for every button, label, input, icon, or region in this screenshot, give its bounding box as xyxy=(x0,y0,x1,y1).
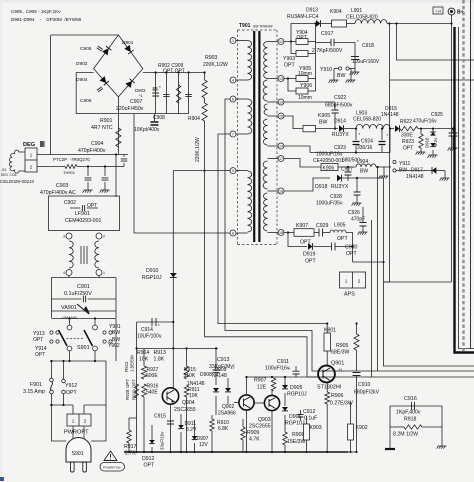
svg-text:R929: R929 xyxy=(132,389,137,400)
transistor Q904 xyxy=(162,388,178,404)
svg-text:*: * xyxy=(158,323,160,328)
svg-text:*: * xyxy=(159,85,161,90)
switch gang link xyxy=(67,338,85,340)
wire Y906 right xyxy=(308,90,316,92)
svg-text:R901: R901 xyxy=(100,118,113,124)
svg-text:N4148: N4148 xyxy=(212,373,227,379)
degauss coil xyxy=(9,150,25,173)
wire pin12 down xyxy=(290,42,292,54)
wire frame line e xyxy=(371,220,373,377)
wire capacitor C903a stem xyxy=(87,167,89,177)
wire L904 out xyxy=(376,166,391,168)
capacitor C910 xyxy=(353,373,361,376)
junction C923 top xyxy=(355,128,357,130)
svg-text:L901: L901 xyxy=(351,8,362,14)
wire run pin6 long xyxy=(225,99,474,371)
svg-text:RGP10J: RGP10J xyxy=(287,392,307,398)
wire pin9 line xyxy=(173,170,230,172)
resistor R922 xyxy=(400,126,418,130)
core T901 xyxy=(254,31,259,242)
wire R-top bus xyxy=(137,347,218,349)
wire Y906 left xyxy=(288,79,296,92)
svg-text:4: 4 xyxy=(63,271,65,275)
svg-text:C923: C923 xyxy=(334,145,346,151)
wire R905-C910 xyxy=(356,350,358,371)
svg-text:CELC058-820: CELC058-820 xyxy=(346,15,378,21)
svg-text:7: 7 xyxy=(232,132,234,136)
wire C908 stub xyxy=(154,114,156,121)
svg-text:D913: D913 xyxy=(306,8,318,14)
svg-text:0.1uF/250V: 0.1uF/250V xyxy=(64,291,92,297)
capacitor C912 xyxy=(298,415,304,418)
svg-text:K905: K905 xyxy=(318,113,330,119)
wire C918 col xyxy=(354,43,356,63)
wire Q903 base xyxy=(254,402,265,404)
wire plug stem2 xyxy=(83,426,85,441)
wire B+ stem xyxy=(451,15,453,24)
connector DEG divider xyxy=(25,159,37,161)
ground row3 xyxy=(379,176,389,179)
resistor R917 xyxy=(127,430,131,443)
wire plug stem1 xyxy=(72,426,74,441)
transistor Q901 xyxy=(318,366,335,383)
junction C928 xyxy=(356,177,358,179)
inductor LF901 left xyxy=(69,241,73,268)
wire R908 lower xyxy=(284,445,286,452)
wire R906 stem xyxy=(326,383,328,393)
svg-text:1: 1 xyxy=(72,419,75,424)
capacitor C904 xyxy=(121,159,127,161)
svg-text:1KpF,400v: 1KpF,400v xyxy=(396,410,421,416)
capacitor C902 xyxy=(82,205,84,211)
diode D905 RGP10J xyxy=(282,385,288,389)
svg-text:15: 15 xyxy=(279,114,283,118)
svg-text:C905 , C906 - 1KpF,1Kv: C905 , C906 - 1KpF,1Kv xyxy=(11,9,61,14)
svg-text:18: 18 xyxy=(279,231,283,235)
jumper Y912 xyxy=(62,379,66,383)
wire Q903 emitter xyxy=(271,411,273,453)
svg-text:.01: .01 xyxy=(1,167,7,172)
resistor R915 xyxy=(184,366,188,379)
svg-text:10: 10 xyxy=(279,100,283,104)
svg-text:R914: R914 xyxy=(137,350,150,356)
svg-text:D916: D916 xyxy=(425,137,430,148)
wire C907neg rail xyxy=(133,114,135,233)
svg-text:C916: C916 xyxy=(404,396,417,402)
pin 18 T901 sec xyxy=(278,230,284,236)
svg-text:BW: BW xyxy=(337,73,345,79)
capacitor across line xyxy=(163,94,169,96)
resistor R901 4R7 NTC xyxy=(116,128,121,147)
svg-text:2SA966: 2SA966 xyxy=(218,411,236,417)
wire DEG pin2 right xyxy=(77,166,116,168)
svg-text:R906: R906 xyxy=(331,393,344,399)
capacitor C901 xyxy=(83,296,85,303)
wire D908 lower xyxy=(227,396,229,404)
junction R-top b xyxy=(172,347,174,349)
svg-text:Q904: Q904 xyxy=(182,400,195,406)
svg-text:10Kpt/400v: 10Kpt/400v xyxy=(134,127,160,133)
wire K905-D914 xyxy=(316,128,339,130)
wire pin4 stem xyxy=(68,275,70,278)
wire switch lower 69.5 xyxy=(69,351,71,361)
svg-text:3: 3 xyxy=(63,235,65,239)
pin 14 T901 sec xyxy=(278,143,284,149)
svg-text:2: 2 xyxy=(358,279,361,284)
wire C924 stem xyxy=(381,129,383,140)
resistor R908 xyxy=(283,432,287,445)
wire Y910 right xyxy=(349,68,355,70)
resistor R906 xyxy=(325,392,330,404)
inductor LF901 right xyxy=(95,241,99,268)
resistor R903 xyxy=(202,80,207,98)
wire pin 15 sec stub xyxy=(268,115,279,117)
junction C917 top xyxy=(315,22,317,24)
diode D910 RGP10J xyxy=(170,273,177,277)
wire frame line d xyxy=(377,167,379,371)
svg-text:470pF/400v: 470pF/400v xyxy=(78,148,106,154)
wire R917 link xyxy=(128,418,130,430)
svg-text:510K: 510K xyxy=(184,373,196,379)
capacitor C903b xyxy=(102,178,109,180)
jumper Y911 circles xyxy=(393,160,396,163)
svg-text:C905: C905 xyxy=(80,46,92,52)
switch contact bottom 95 xyxy=(93,346,98,351)
svg-text:600E: 600E xyxy=(146,373,158,379)
capacitor C923 xyxy=(353,142,360,145)
svg-text:R918: R918 xyxy=(404,417,417,423)
svg-text:330/16: 330/16 xyxy=(357,145,373,151)
capacitor C908 xyxy=(151,122,159,125)
svg-text:R905: R905 xyxy=(336,343,349,349)
wire bridge top to left rail xyxy=(51,34,119,36)
junction C913 top xyxy=(215,347,217,349)
wire D918 out xyxy=(342,177,384,179)
junction base row a xyxy=(245,376,247,378)
svg-text:1: 1 xyxy=(103,271,105,275)
wire C923 stem xyxy=(355,129,357,140)
svg-text:Y906: Y906 xyxy=(300,83,312,89)
junction ground bus 186.5 xyxy=(185,451,187,453)
junction C924 top xyxy=(381,128,383,130)
terminal B+ xyxy=(448,8,455,15)
svg-text:SW TRANSF: SW TRANSF xyxy=(253,25,273,29)
wire D905 stem xyxy=(284,377,286,385)
wire left mid rail xyxy=(136,322,138,452)
svg-text:1: 1 xyxy=(232,39,234,43)
wire R917 bottom xyxy=(128,443,130,452)
wire feedback h282 xyxy=(384,281,452,283)
ground C918 xyxy=(350,72,360,75)
wire Q902 emitter xyxy=(246,410,248,452)
wire frame line c xyxy=(384,178,474,366)
wire corner y80 xyxy=(390,79,474,81)
svg-text:R904: R904 xyxy=(188,116,200,122)
ground R923 xyxy=(416,152,426,155)
wire K903 lower xyxy=(306,440,308,452)
scan edge left xyxy=(0,0,3,482)
transistor Q902 xyxy=(239,395,254,410)
wire C901 row left xyxy=(52,298,82,300)
shield dashed line xyxy=(462,0,464,351)
wire bridge bottom drop xyxy=(117,97,119,155)
wire capacitor C903b lower xyxy=(104,182,106,190)
svg-text:D991-D994 - GP20M /BYW5: D991-D994 - GP20M /BYW56 xyxy=(11,17,82,22)
wire Q902 base xyxy=(234,402,239,404)
capacitor C930 xyxy=(332,243,336,251)
svg-text:BW: BW xyxy=(360,169,368,175)
svg-text:4.7K: 4.7K xyxy=(249,437,260,443)
junction R903 top xyxy=(204,71,206,73)
pin 13 T901 sec xyxy=(278,76,284,82)
bridge rectifier outline xyxy=(94,35,143,97)
junction fuse bus 95 xyxy=(94,360,96,362)
svg-text:6.8K: 6.8K xyxy=(218,426,229,432)
pin 4 LF901 xyxy=(66,270,72,276)
ground R918 xyxy=(437,446,447,449)
diode D904 xyxy=(100,76,109,85)
ground D917 xyxy=(440,178,450,181)
wire R923 low xyxy=(420,148,422,152)
resistor R923 xyxy=(419,134,423,148)
wire R910 stem xyxy=(211,415,213,419)
wire K904-L901 xyxy=(347,23,356,25)
wire bridge left corner stub xyxy=(76,72,93,74)
wire fuse lower xyxy=(51,394,53,405)
wire C922 stem xyxy=(334,102,336,110)
transformer boundary left xyxy=(237,30,239,245)
junction ground bus 136.6 xyxy=(136,451,138,453)
svg-text:C908: C908 xyxy=(153,115,165,121)
svg-text:D910: D910 xyxy=(146,268,159,274)
wire AC2 drop xyxy=(75,73,77,114)
junction Y906 xyxy=(287,77,289,79)
wire C904 stub xyxy=(123,155,125,158)
wire C917 right xyxy=(334,42,355,44)
wire R903 top xyxy=(204,73,206,81)
svg-text:Q901: Q901 xyxy=(331,361,344,367)
wire capacitor C903b stem xyxy=(104,167,106,177)
svg-text:OPT: OPT xyxy=(305,259,316,265)
wire pin 8 stub xyxy=(236,232,248,234)
svg-text:OPT: OPT xyxy=(284,63,295,69)
svg-text:8: 8 xyxy=(232,231,234,235)
svg-text:Q902: Q902 xyxy=(222,404,234,410)
capacitor C913 xyxy=(213,370,220,373)
wire K902 lower xyxy=(350,440,352,452)
wire pin 14 sec stub xyxy=(268,145,279,147)
wire K901 top xyxy=(326,324,328,334)
diode D913 xyxy=(316,20,320,27)
svg-text:680pF/500v: 680pF/500v xyxy=(325,103,353,109)
wire C916 top xyxy=(390,405,442,407)
junction C903b xyxy=(104,165,106,167)
svg-text:POWER SW: POWER SW xyxy=(103,466,121,470)
power sw badge xyxy=(100,463,125,472)
svg-text:540E: 540E xyxy=(146,390,158,396)
resistor R907 xyxy=(271,378,275,391)
capacitor C909 xyxy=(185,94,191,96)
junction x178.6 xyxy=(178,71,180,73)
capacitor C922 xyxy=(332,110,339,113)
wire R911 bottom xyxy=(186,397,188,452)
capacitor C917 xyxy=(331,39,334,46)
svg-text:16: 16 xyxy=(279,189,283,193)
wire vert run b xyxy=(397,24,474,61)
wire filter bus xyxy=(310,152,390,154)
svg-text:C910: C910 xyxy=(358,382,371,388)
svg-text:PTC2P -7R0Q270: PTC2P -7R0Q270 xyxy=(53,157,90,162)
diode D907 zener xyxy=(192,436,198,440)
svg-text:220K,1/2W: 220K,1/2W xyxy=(195,137,201,162)
wire C926 stem xyxy=(362,207,364,223)
jumper K905 xyxy=(303,125,316,131)
wire D917 gnd stem xyxy=(444,171,446,179)
junction drive/C914 xyxy=(172,321,174,323)
svg-text:TH901: TH901 xyxy=(63,170,76,175)
wire D912 stem xyxy=(151,425,153,440)
pin 2 LF901 xyxy=(96,233,102,239)
capacitor C903a xyxy=(85,178,92,180)
wire R918 left xyxy=(390,426,404,428)
svg-text:10K: 10K xyxy=(189,393,199,399)
junction pwr bus a xyxy=(50,404,52,406)
junction switch 95 xyxy=(94,317,96,319)
svg-text:D912: D912 xyxy=(142,456,155,462)
wire Y906 col xyxy=(315,66,317,91)
diode D914 xyxy=(339,125,343,132)
inductor L903 xyxy=(356,124,390,128)
capacitor C925 xyxy=(449,133,458,136)
wire pin10 xyxy=(284,101,335,103)
svg-text:OPT: OPT xyxy=(297,35,307,41)
svg-text:C911: C911 xyxy=(277,359,289,365)
svg-text:3.15 Amp: 3.15 Amp xyxy=(23,389,45,395)
capacitor C915 xyxy=(167,421,174,424)
svg-text:*1: *1 xyxy=(339,368,344,373)
svg-text:12V: 12V xyxy=(199,442,209,448)
svg-text:OPT: OPT xyxy=(346,251,357,257)
wire B+ down xyxy=(451,24,453,283)
wire base row xyxy=(247,376,319,378)
capacitor C916 xyxy=(412,402,415,410)
icon DEG box xyxy=(40,141,45,147)
junction C903a xyxy=(87,165,89,167)
pin 4 T901 xyxy=(230,77,236,83)
svg-text:L904: L904 xyxy=(357,159,368,165)
wire C930 right xyxy=(335,246,353,248)
wire R904 bottom xyxy=(204,121,206,171)
capacitor C927 xyxy=(345,172,352,175)
svg-text:PWROPT: PWROPT xyxy=(64,430,89,436)
wire pin14 xyxy=(284,146,310,153)
svg-text:13: 13 xyxy=(279,77,283,81)
svg-text:C904: C904 xyxy=(91,141,104,147)
svg-text:*: * xyxy=(357,39,359,44)
wire L905 out xyxy=(346,233,353,263)
capacitor C906 xyxy=(97,87,103,92)
switch contact top 95 xyxy=(93,325,98,330)
resistor R916 xyxy=(142,384,146,397)
junction vert run b xyxy=(395,22,397,24)
capacitor C928 xyxy=(354,192,361,195)
svg-text:DKG. COIL: DKG. COIL xyxy=(1,173,17,177)
svg-text:*: * xyxy=(359,132,361,137)
winding primary 1-4 xyxy=(248,41,252,81)
svg-text:9: 9 xyxy=(232,169,234,173)
svg-text:R912: R912 xyxy=(124,361,129,372)
svg-text:C907: C907 xyxy=(130,99,143,105)
wire K901 bottom xyxy=(326,351,328,366)
wire Q903 collector xyxy=(271,391,273,396)
wire R927 join xyxy=(143,348,145,366)
wire C922 lower xyxy=(334,113,336,129)
junction ground bus 327 xyxy=(326,451,328,453)
svg-text:Y911: Y911 xyxy=(399,161,411,167)
jumper K902 xyxy=(348,424,354,440)
svg-text:C927: C927 xyxy=(341,167,353,173)
junction pin18 xyxy=(287,231,289,233)
svg-text:Y902: Y902 xyxy=(108,343,120,349)
transformer boundary top xyxy=(238,29,278,31)
inductor L904 xyxy=(356,164,376,167)
frame right thin xyxy=(470,0,472,349)
svg-text:R913: R913 xyxy=(154,350,167,356)
junction switch 69.5 xyxy=(68,317,70,319)
wire switch upper 95 xyxy=(94,319,96,326)
svg-text:6: 6 xyxy=(232,97,234,101)
svg-text:470pF/400v AC: 470pF/400v AC xyxy=(40,190,76,196)
warning triangle xyxy=(104,451,117,461)
junction D905 top xyxy=(284,376,286,378)
svg-text:C924: C924 xyxy=(361,139,373,145)
svg-text:C925: C925 xyxy=(431,112,443,118)
svg-text:68E/3W: 68E/3W xyxy=(331,350,350,356)
plug S901 body xyxy=(66,438,91,463)
scan edge top xyxy=(0,0,474,3)
winding secondary 12-13 xyxy=(264,42,268,79)
svg-text:4: 4 xyxy=(232,78,234,82)
wire R906 lower xyxy=(326,404,328,452)
wire R910 lower xyxy=(211,431,213,452)
jumper Y906 xyxy=(296,88,308,94)
wire AC bus top xyxy=(52,277,117,279)
diode D908 xyxy=(225,388,231,392)
wire C926 low xyxy=(362,226,364,232)
svg-text:D908: D908 xyxy=(200,372,212,378)
wire left rail upper xyxy=(50,35,52,155)
svg-text:CE42050-001: CE42050-001 xyxy=(313,158,344,164)
ground C925 xyxy=(448,148,458,151)
ground C916 xyxy=(385,448,395,450)
wire L901-B+ xyxy=(387,23,452,25)
wire L903-D915 xyxy=(390,128,394,130)
wire Y910 stem l xyxy=(333,69,335,81)
pin 15 T901 sec xyxy=(278,113,284,119)
wire C925 lower xyxy=(452,136,454,148)
wire C928 stem xyxy=(356,178,358,192)
svg-text:C918: C918 xyxy=(362,43,374,49)
wire C902 right xyxy=(87,207,98,209)
resistor R909 xyxy=(241,427,245,440)
svg-text:*: * xyxy=(387,133,389,138)
svg-text:LF901: LF901 xyxy=(75,211,90,217)
plug S901 prong1 xyxy=(71,462,75,472)
svg-text:1.8K: 1.8K xyxy=(154,357,165,363)
wire pin 16 sec stub xyxy=(268,190,279,192)
winding secondary 15-14 xyxy=(263,119,267,145)
svg-text:RU3AM-LFC4: RU3AM-LFC4 xyxy=(287,14,319,20)
